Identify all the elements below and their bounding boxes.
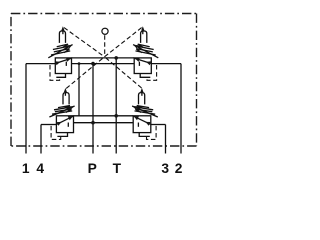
wire port 1 (25, 64, 27, 154)
svg-text:1: 1 (22, 161, 30, 176)
wire port1 to valve V1 (26, 63, 55, 65)
valve V2 (top-right) flow-path arrow (135, 58, 151, 63)
junction bridge-link / P bus (78, 62, 81, 65)
valve V2 (top-right) spring (136, 44, 156, 55)
enclosure dash-dot boundary (11, 13, 197, 15)
valve V1 (top-left) actuation arrow (62, 29, 64, 34)
pilot line to valve V2 (105, 28, 142, 57)
valve V3 (bottom-left) actuation arrow (64, 91, 66, 96)
valve V1 (top-left) pilot drain line (56, 74, 65, 78)
svg-text:T: T (113, 161, 122, 176)
valve V4 (bottom-right) flow-path arrow (134, 116, 151, 124)
wire port 4 (40, 125, 42, 154)
wire lower bus bottom row (74, 122, 134, 124)
valve V3 (bottom-left) spring (52, 106, 72, 115)
valve V2 (top-right) blocked-port stub (138, 62, 140, 66)
valve V4 (bottom-right) spring adjustment arrow (132, 106, 158, 117)
junction P bottom (91, 121, 95, 125)
junction P top (91, 62, 95, 66)
valve V1 (top-left) body box (55, 58, 71, 74)
valve V1 (top-left) spring adjustment arrow (48, 45, 72, 58)
pilot line to valve V4 (105, 57, 142, 88)
wire bridge link column (78, 64, 80, 116)
wire upper bus top row (T) (72, 57, 135, 59)
valve V4 (bottom-right) pilot drain line (139, 133, 150, 137)
svg-text:4: 4 (36, 161, 44, 176)
valve V2 (top-right) solenoid capsule (141, 31, 147, 43)
valve V4 (bottom-right) actuation arrow (141, 91, 143, 96)
wire port 3 (165, 125, 167, 154)
wire upper bus bottom row (74, 115, 134, 117)
valve V4 (bottom-right) spring (135, 106, 156, 115)
valve V2 (top-right) spring adjustment arrow (133, 45, 158, 58)
valve V1 (top-left) solenoid capsule (59, 31, 65, 43)
valve V4 (bottom-right) blocked-port stub (137, 123, 139, 127)
wire valve V2 to port2 (151, 63, 181, 65)
svg-text:2: 2 (175, 161, 183, 176)
wire valve V4 to port3 (151, 124, 166, 126)
valve V4 (bottom-right) solenoid capsule (139, 93, 145, 105)
valve V4 (bottom-right) body box (133, 116, 151, 133)
wire port T (115, 58, 117, 154)
wire port4 to valve V3 (41, 124, 56, 126)
valve V3 (bottom-left) body box (56, 116, 73, 133)
valve V3 (bottom-left) pilot drain line (57, 133, 67, 137)
junction T top (114, 56, 118, 60)
svg-text:P: P (88, 161, 97, 176)
valve V3 (bottom-left) flow-path arrow (57, 116, 73, 124)
valve V1 (top-left) spring (51, 44, 70, 55)
valve V2 (top-right) actuation arrow (142, 29, 144, 34)
wire port P (92, 64, 94, 154)
valve V1 (top-left) flow-path arrow (56, 58, 71, 63)
valve V3 (bottom-left) solenoid capsule (63, 93, 69, 105)
valve V3 (bottom-left) blocked-port stub (67, 123, 69, 127)
pilot line vertical from vent (104, 35, 106, 57)
vent circle (102, 28, 108, 34)
pilot line to valve V1 (64, 28, 105, 57)
wire lower bus top row (P) (72, 63, 135, 65)
valve V1 (top-left) blocked-port stub (65, 62, 67, 66)
valve V2 (top-right) pilot drain line (140, 74, 150, 78)
valve V3 (bottom-left) spring adjustment arrow (49, 106, 74, 117)
valve V2 (top-right) body box (134, 58, 151, 74)
svg-text:3: 3 (161, 161, 169, 176)
pilot line to valve V3 (66, 57, 104, 89)
wire port 2 (180, 64, 182, 154)
junction T bottom (114, 114, 118, 118)
